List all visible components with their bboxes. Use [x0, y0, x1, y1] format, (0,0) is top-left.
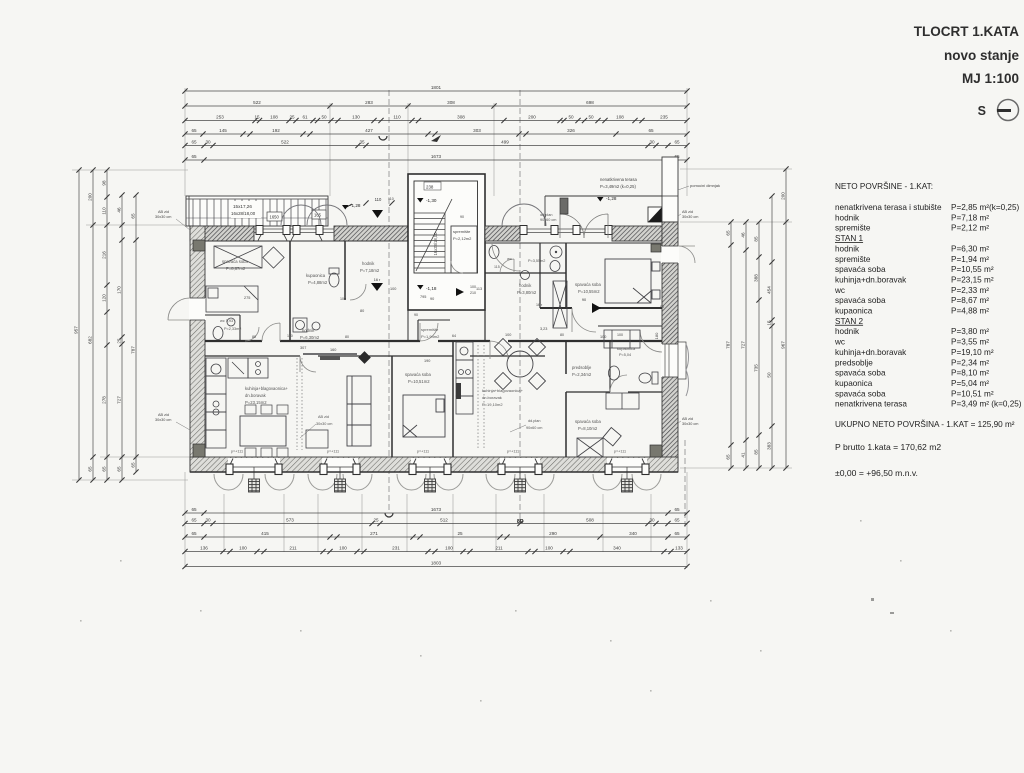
svg-text:735: 735 — [753, 364, 758, 372]
coffee table stan1 — [306, 430, 328, 448]
svg-text:211: 211 — [495, 546, 503, 551]
svg-text:P=2,33m2: P=2,33m2 — [224, 327, 241, 331]
svg-text:113: 113 — [476, 287, 482, 291]
svg-text:98: 98 — [101, 180, 106, 186]
svg-text:253: 253 — [216, 115, 224, 120]
corner column blocks — [193, 240, 662, 457]
svg-text:46: 46 — [740, 232, 745, 238]
svg-text:spavaća soba: spavaća soba — [575, 282, 602, 287]
middle bedroom bed — [403, 395, 445, 437]
door arc bedroom1 — [262, 323, 280, 341]
svg-text:-1,28: -1,28 — [606, 196, 617, 201]
svg-text:p=+111: p=+111 — [327, 450, 339, 454]
svg-text:wc 1,93: wc 1,93 — [220, 319, 233, 323]
axis symbol U on dim row top — [379, 136, 387, 140]
axis arrow mark near 437,138 — [431, 135, 441, 142]
scan speckles — [80, 520, 952, 702]
svg-text:hodnik: hodnik — [362, 261, 375, 266]
hall direction triangle 2 — [371, 283, 383, 291]
svg-text:25: 25 — [373, 518, 379, 523]
svg-text:P=2,12m2: P=2,12m2 — [453, 236, 472, 241]
dimension line top 2 main bays — [182, 103, 689, 108]
svg-text:spavaća soba: spavaća soba — [835, 389, 886, 398]
dimension line bottom 2 — [182, 521, 689, 526]
svg-text:90x60 cm: 90x60 cm — [526, 426, 542, 430]
stair treads — [414, 213, 445, 273]
kitchen1 counter column — [206, 358, 226, 448]
axis line C vertical dashed x=685 bottom — [684, 440, 686, 528]
kitchen1 top counters — [228, 358, 268, 378]
svg-text:P=8,10m2: P=8,10m2 — [578, 426, 598, 431]
svg-text:200: 200 — [780, 192, 785, 200]
svg-text:p=+111: p=+111 — [614, 450, 626, 454]
interior wall vertical bedroom1-bath1 — [289, 241, 291, 341]
svg-text:STAN 1: STAN 1 — [835, 234, 864, 243]
spremiste1 walls — [418, 319, 450, 321]
svg-text:308: 308 — [447, 100, 455, 105]
bed bedroom1 — [206, 286, 258, 312]
svg-text:15x17,26: 15x17,26 — [233, 204, 252, 209]
svg-text:P=7,18m2: P=7,18m2 — [360, 268, 380, 273]
svg-text:25: 25 — [289, 115, 295, 120]
svg-text:±0,00 = +96,50 m.n.v.: ±0,00 = +96,50 m.n.v. — [835, 468, 918, 478]
svg-text:110: 110 — [393, 115, 401, 120]
svg-text:spavaća soba: spavaća soba — [835, 369, 886, 378]
double door arcs to terrace — [560, 214, 584, 238]
svg-text:30: 30 — [205, 518, 211, 523]
bath1 washing machine and sink — [293, 318, 320, 332]
axis line B vertical dashed x=520 — [519, 90, 521, 520]
dimension line top 4 — [182, 131, 689, 136]
svg-text:100: 100 — [545, 546, 553, 551]
svg-text:90: 90 — [430, 297, 434, 301]
chimney block — [560, 198, 568, 214]
dimension line right 1 — [728, 219, 733, 470]
top wall window jambs left — [256, 226, 323, 235]
svg-text:30x30 cm: 30x30 cm — [155, 215, 171, 219]
svg-text:30x30 cm: 30x30 cm — [155, 418, 171, 422]
svg-text:65: 65 — [191, 154, 197, 159]
svg-text:1673: 1673 — [431, 507, 442, 512]
svg-text:P=2,85 m²(k=0,25): P=2,85 m²(k=0,25) — [951, 203, 1020, 212]
svg-text:-1,30: -1,30 — [426, 198, 437, 203]
svg-text:727: 727 — [740, 341, 745, 349]
svg-text:P=1,94 m²: P=1,94 m² — [951, 255, 989, 264]
svg-text:80: 80 — [360, 309, 364, 313]
svg-text:100: 100 — [505, 333, 511, 337]
svg-text:90: 90 — [460, 215, 464, 219]
dimension line right 3 — [756, 219, 761, 470]
drain shaft symbol — [648, 207, 662, 222]
bedroom2 wardrobe X — [577, 438, 603, 457]
svg-text:326: 326 — [567, 128, 575, 133]
svg-text:P=10,55 m²: P=10,55 m² — [951, 265, 994, 274]
svg-text:100: 100 — [390, 287, 396, 291]
dimension line bottom 3 — [182, 534, 689, 539]
svg-text:795: 795 — [420, 295, 426, 299]
svg-text:15: 15 — [254, 115, 260, 120]
svg-text:1803: 1803 — [431, 561, 442, 566]
svg-text:216: 216 — [101, 251, 106, 259]
top wall glazing right windows — [520, 229, 612, 233]
stair storage spremiste — [451, 226, 477, 273]
interior wall vertical bedroom-kitchen2 — [452, 341, 454, 457]
svg-text:727: 727 — [116, 396, 121, 404]
svg-text:TLOCRT 1.KATA: TLOCRT 1.KATA — [914, 24, 1019, 39]
svg-text:85: 85 — [753, 449, 758, 455]
door arc hall1 wc — [245, 327, 259, 341]
svg-text:100: 100 — [239, 546, 247, 551]
svg-text:90: 90 — [660, 305, 664, 309]
svg-text:P=2,33 m²: P=2,33 m² — [951, 286, 989, 295]
svg-text:65: 65 — [725, 454, 730, 460]
svg-text:kupaonica: kupaonica — [617, 346, 636, 351]
right window shutter arcs — [686, 344, 689, 370]
svg-text:hodnik: hodnik — [835, 327, 860, 336]
axis line A vertical dashed x=389 — [388, 90, 390, 512]
svg-text:P=19,10m2: P=19,10m2 — [482, 402, 503, 407]
svg-text:P=3,55 m²: P=3,55 m² — [951, 338, 989, 347]
interior wall kupaonica2 — [566, 391, 610, 393]
svg-text:100: 100 — [339, 546, 347, 551]
wardrobe X right hall — [553, 281, 567, 328]
svg-text:64: 64 — [452, 334, 456, 338]
door arc wc2 — [500, 259, 514, 273]
svg-text:8D: 8D — [517, 519, 524, 525]
svg-text:30: 30 — [649, 140, 655, 145]
hall direction triangle — [372, 210, 383, 218]
svg-text:P=6,30 m²: P=6,30 m² — [951, 244, 989, 253]
svg-text:522: 522 — [253, 100, 261, 105]
tv speaker diamond — [358, 351, 371, 364]
terrace door swing arc 2 — [307, 205, 347, 225]
left wall hatched — [190, 226, 205, 472]
dimension line bottom 1 — [182, 510, 689, 515]
svg-text:100: 100 — [340, 297, 346, 301]
top wall hatched left section — [190, 226, 408, 241]
svg-text:spavaća soba: spavaća soba — [835, 296, 886, 305]
level flag +1,28 terrace right — [597, 197, 604, 202]
svg-text:65: 65 — [191, 518, 197, 523]
svg-text:kuhinja+blagovaonica+: kuhinja+blagovaonica+ — [482, 388, 524, 393]
extension lines left — [72, 170, 190, 480]
svg-text:210: 210 — [470, 291, 476, 295]
svg-text:kuhinja+blagovaonica+: kuhinja+blagovaonica+ — [245, 386, 288, 391]
terrace top-left deck — [186, 196, 328, 226]
living room dotted guides — [296, 358, 298, 450]
svg-text:pomoćni dimnjak: pomoćni dimnjak — [690, 183, 720, 188]
svg-text:65: 65 — [116, 466, 121, 472]
svg-text:80: 80 — [345, 335, 349, 339]
svg-text:30: 30 — [205, 140, 211, 145]
svg-text:340: 340 — [629, 531, 637, 536]
svg-text:100: 100 — [445, 546, 453, 551]
interior wall vertical predsoblje-kupaonica2 — [609, 341, 611, 392]
svg-text:65: 65 — [725, 230, 730, 236]
svg-text:65: 65 — [674, 140, 680, 145]
extension lines top — [185, 88, 687, 196]
svg-text:P=4,88 m²: P=4,88 m² — [951, 307, 989, 316]
svg-text:278: 278 — [101, 396, 106, 404]
svg-text:P=7,18 m²: P=7,18 m² — [951, 213, 989, 222]
svg-text:133: 133 — [675, 546, 683, 551]
kitchen2 dotted guides — [477, 345, 479, 450]
dimension line left 1 total 957 — [76, 167, 81, 482]
svg-text:novo stanje: novo stanje — [944, 48, 1020, 63]
svg-text:698: 698 — [586, 100, 594, 105]
svg-text:25: 25 — [457, 531, 463, 536]
svg-text:16x28/18,00: 16x28/18,00 — [231, 211, 256, 216]
svg-text:p=+111: p=+111 — [417, 450, 429, 454]
svg-text:522: 522 — [281, 140, 289, 145]
svg-text:200: 200 — [87, 193, 92, 201]
svg-text:P=2,34 m²: P=2,34 m² — [951, 358, 989, 367]
svg-text:65: 65 — [101, 466, 106, 472]
svg-text:hodnik: hodnik — [302, 328, 315, 333]
terrace boxed label 1 — [267, 212, 282, 221]
svg-text:spavaća soba: spavaća soba — [835, 265, 886, 274]
top wall hatched right section — [485, 226, 662, 241]
svg-text:P=5,04 m²: P=5,04 m² — [951, 379, 989, 388]
svg-text:NETO POVRŠINE - 1.KAT:: NETO POVRŠINE - 1.KAT: — [835, 181, 933, 191]
door arc kupaonica2 — [610, 375, 627, 392]
svg-text:P=10,51 m²: P=10,51 m² — [951, 389, 994, 398]
svg-text:340: 340 — [613, 546, 621, 551]
svg-text:115: 115 — [494, 265, 500, 269]
stair block outer wall — [408, 174, 485, 310]
svg-text:P=23,15m2: P=23,15m2 — [245, 400, 267, 405]
svg-text:UKUPNO NETO POVRŠINA - 1.KAT =: UKUPNO NETO POVRŠINA - 1.KAT = 125,90 m² — [835, 419, 1015, 429]
kitchen2 fridge dark — [456, 383, 461, 399]
svg-text:P=3,80 m²: P=3,80 m² — [951, 327, 989, 336]
svg-text:512: 512 — [440, 518, 448, 523]
svg-text:50: 50 — [588, 115, 594, 120]
svg-text:wc: wc — [507, 256, 512, 261]
svg-text:200: 200 — [528, 115, 536, 120]
svg-text:16x28/18,00: 16x28/18,00 — [433, 232, 438, 256]
svg-text:P=1,94m2: P=1,94m2 — [421, 334, 440, 339]
svg-text:P=10,55m2: P=10,55m2 — [578, 289, 600, 294]
dimension line left 4 — [119, 192, 124, 482]
svg-text:61: 61 — [302, 115, 308, 120]
svg-text:65: 65 — [191, 128, 197, 133]
bottom shutter arcs — [214, 474, 243, 490]
sofa stan1 — [347, 376, 371, 446]
svg-text:kupaonica: kupaonica — [835, 379, 873, 388]
svg-text:P=8,67m2: P=8,67m2 — [226, 266, 246, 271]
svg-text:427: 427 — [365, 128, 373, 133]
interior wall right hall — [540, 307, 572, 309]
kupaonica2 fixtures — [609, 366, 659, 384]
svg-text:65: 65 — [130, 213, 135, 219]
svg-text:65: 65 — [191, 140, 197, 145]
svg-text:65: 65 — [674, 518, 680, 523]
dimension line right 5 total 967 — [783, 166, 788, 470]
right wall hatched — [662, 222, 678, 468]
svg-text:S: S — [978, 104, 986, 118]
right wall upper terrace parapet — [662, 157, 678, 222]
svg-text:65: 65 — [130, 462, 135, 468]
svg-text:nenatkrivena terasa: nenatkrivena terasa — [600, 177, 637, 182]
svg-text:hodnik: hodnik — [835, 244, 860, 253]
bottom wall outer face line — [190, 471, 678, 473]
svg-text:65: 65 — [191, 507, 197, 512]
svg-text:170: 170 — [116, 286, 121, 294]
svg-text:AB zid: AB zid — [682, 210, 693, 214]
bath2 fixtures — [550, 246, 562, 258]
svg-text:-1,28: -1,28 — [350, 203, 361, 208]
right wall door opening — [661, 246, 679, 263]
terrace top-right boundary — [545, 196, 678, 226]
svg-text:108: 108 — [616, 115, 624, 120]
svg-text:90x60 cm: 90x60 cm — [540, 218, 556, 222]
svg-text:AB zid: AB zid — [682, 417, 693, 421]
svg-text:3,23: 3,23 — [540, 327, 547, 331]
svg-text:308: 308 — [457, 115, 465, 120]
axis symbol U at bottom of axis A — [385, 513, 393, 517]
svg-text:P=19,10 m²: P=19,10 m² — [951, 348, 994, 357]
dimension line top 1 total 1801 — [182, 88, 689, 93]
door arc bath1 — [300, 356, 316, 372]
kitchen2 counter column — [456, 342, 473, 414]
svg-text:1801: 1801 — [431, 85, 442, 90]
svg-text:1673: 1673 — [431, 154, 442, 159]
svg-text:290: 290 — [549, 531, 557, 536]
wc1 fixtures — [213, 327, 223, 340]
dimension line top 5 — [182, 143, 689, 148]
svg-text:kupaonica: kupaonica — [835, 307, 873, 316]
bedroom right top bed — [605, 259, 660, 303]
interior wall vertical bath2 right — [565, 243, 567, 308]
terrace boxed label 2 — [312, 210, 326, 219]
svg-text:30x30 cm: 30x30 cm — [682, 422, 698, 426]
svg-text:P=5,04: P=5,04 — [619, 353, 631, 357]
top wall glazing left windows — [254, 229, 334, 233]
svg-text:AB zid: AB zid — [158, 210, 169, 214]
interior wall vertical kitchen2-predsoblje — [565, 341, 567, 374]
interior wall bath row bottom — [485, 272, 566, 274]
svg-text:80: 80 — [252, 335, 256, 339]
stair exit triangle — [456, 288, 464, 296]
svg-text:P=3,80m2: P=3,80m2 — [517, 290, 537, 295]
svg-text:15: 15 — [766, 320, 771, 326]
dimension line right 2 — [743, 219, 748, 470]
svg-text:spavaća soba: spavaća soba — [575, 419, 602, 424]
svg-text:303: 303 — [473, 128, 481, 133]
svg-text:90: 90 — [414, 313, 418, 317]
svg-text:P=4,88m2: P=4,88m2 — [308, 280, 328, 285]
svg-text:25: 25 — [116, 338, 121, 344]
svg-text:P=2,12 m²: P=2,12 m² — [951, 224, 989, 233]
door arc right hall to bedroom — [572, 308, 596, 332]
svg-text:235: 235 — [660, 115, 668, 120]
wc1 walls — [205, 314, 240, 316]
svg-text:190: 190 — [424, 359, 430, 363]
svg-text:383: 383 — [766, 442, 771, 450]
svg-text:211: 211 — [289, 546, 297, 551]
svg-text:P=2,34m2: P=2,34m2 — [572, 372, 592, 377]
stair block inner wall — [414, 181, 478, 273]
svg-text:110: 110 — [388, 197, 394, 201]
svg-text:967: 967 — [780, 341, 785, 349]
svg-text:P=3,49 m² (k=0,25): P=3,49 m² (k=0,25) — [951, 400, 1022, 409]
exterior stair label 15x17,26 — [231, 201, 261, 218]
left wall door opening — [189, 298, 206, 320]
svg-text:454: 454 — [766, 286, 771, 294]
dimension line left 2 — [90, 167, 95, 482]
svg-text:957: 957 — [73, 326, 78, 334]
svg-text:predsoblje: predsoblje — [572, 365, 592, 370]
svg-text:p=+111: p=+111 — [507, 450, 519, 454]
svg-text:145: 145 — [219, 128, 227, 133]
interior wall mid horizontal main — [205, 340, 662, 342]
bottom wall hatched — [190, 457, 678, 472]
svg-text:108: 108 — [270, 115, 278, 120]
chairs stan2 diagonal — [495, 339, 546, 390]
svg-text:P=3,55m2: P=3,55m2 — [528, 259, 545, 263]
svg-text:P=3,49m2 (k=0,25): P=3,49m2 (k=0,25) — [600, 184, 636, 189]
stair up-direction line — [416, 199, 452, 271]
terrace door swing right 1 — [502, 204, 546, 226]
svg-text:nenatkrivena terasa i stubište: nenatkrivena terasa i stubište — [835, 203, 942, 212]
svg-text:165: 165 — [314, 213, 322, 218]
svg-text:50: 50 — [321, 115, 327, 120]
dimension line left 5 — [133, 192, 138, 474]
svg-text:35: 35 — [359, 140, 365, 145]
svg-text:spavaća soba: spavaća soba — [405, 372, 432, 377]
right window sill — [678, 342, 686, 379]
door arc wc2 entry from top — [492, 243, 520, 271]
svg-text:16 r: 16 r — [536, 303, 543, 307]
svg-text:dn.boravak: dn.boravak — [482, 395, 502, 400]
door arc kitchen2 entry — [490, 341, 508, 359]
level flag -1,30 in stair — [417, 198, 424, 203]
svg-text:16 r: 16 r — [374, 278, 381, 282]
svg-text:30: 30 — [649, 518, 655, 523]
bedroom2 chair diagonal — [603, 428, 621, 446]
svg-text:283: 283 — [365, 100, 373, 105]
svg-text:MJ 1:100: MJ 1:100 — [962, 71, 1019, 86]
svg-text:65: 65 — [674, 531, 680, 536]
bottom window posts — [226, 464, 233, 475]
hall2 direction triangle — [592, 303, 601, 313]
svg-text:682: 682 — [87, 336, 92, 344]
svg-text:30x30 cm: 30x30 cm — [316, 422, 332, 426]
interior wall corridor second line — [205, 355, 545, 357]
svg-text:P brutto 1.kata = 170,62 m2: P brutto 1.kata = 170,62 m2 — [835, 442, 941, 452]
interior wall bottom right room top — [598, 325, 662, 327]
extension lines bottom — [185, 472, 687, 568]
svg-text:spavaća soba: spavaća soba — [222, 259, 249, 264]
svg-text:499: 499 — [501, 140, 509, 145]
svg-text:P=8,10 m²: P=8,10 m² — [951, 369, 989, 378]
svg-text:30x30 cm: 30x30 cm — [682, 215, 698, 219]
level flag -1,18 below stair — [417, 285, 424, 290]
svg-text:180: 180 — [654, 332, 659, 339]
terrace door swing arc 1 — [281, 205, 321, 225]
level flag -1,28 on terrace — [342, 205, 349, 210]
round table stan2 — [507, 351, 533, 377]
svg-text:P=6,30m2: P=6,30m2 — [300, 335, 320, 340]
right wall door arc to terrace — [678, 246, 695, 263]
svg-text:65: 65 — [674, 507, 680, 512]
svg-text:wc: wc — [834, 286, 845, 295]
svg-text:90: 90 — [582, 298, 586, 302]
svg-text:787: 787 — [725, 341, 730, 349]
interior wall vertical living-bedroom mid — [391, 356, 393, 457]
svg-text:50: 50 — [568, 115, 574, 120]
svg-text:nenatkrivena terasa: nenatkrivena terasa — [835, 400, 907, 409]
